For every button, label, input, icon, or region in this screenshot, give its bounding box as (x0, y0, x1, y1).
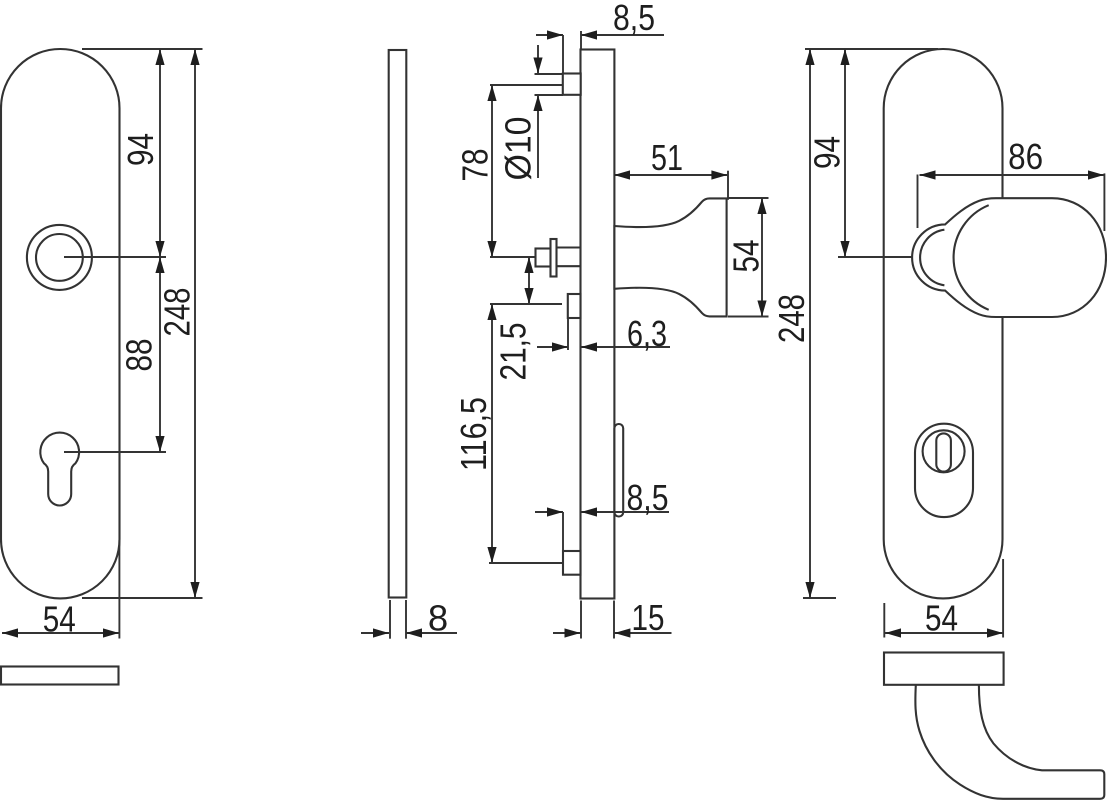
svg-text:86: 86 (1008, 136, 1043, 177)
svg-text:88: 88 (119, 339, 160, 372)
svg-text:248: 248 (157, 288, 198, 337)
svg-text:21,5: 21,5 (493, 323, 534, 381)
svg-text:94: 94 (120, 133, 161, 166)
svg-text:8: 8 (428, 597, 448, 638)
svg-text:54: 54 (43, 598, 76, 639)
svg-text:Ø10: Ø10 (498, 117, 539, 181)
svg-text:15: 15 (632, 597, 665, 638)
svg-text:78: 78 (455, 149, 496, 182)
svg-text:248: 248 (771, 294, 812, 343)
svg-text:54: 54 (925, 597, 958, 638)
svg-text:94: 94 (807, 136, 848, 169)
svg-text:8,5: 8,5 (627, 477, 669, 518)
svg-text:54: 54 (726, 240, 767, 273)
svg-text:116,5: 116,5 (453, 397, 494, 471)
svg-text:8,5: 8,5 (613, 0, 655, 38)
svg-text:51: 51 (651, 137, 683, 178)
svg-text:6,3: 6,3 (627, 313, 667, 354)
